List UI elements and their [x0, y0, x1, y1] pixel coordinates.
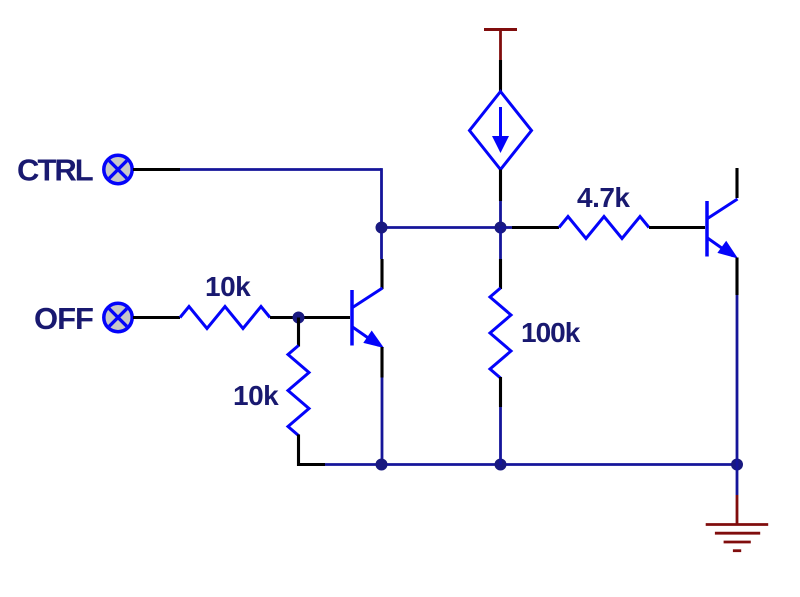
wire pin: Q2 emitter stub: [735, 258, 738, 296]
svg-text:4.7k: 4.7k: [577, 182, 630, 213]
wire pin: OFF terminal: [133, 316, 180, 319]
wire pin: Q1 collector stub: [380, 259, 383, 289]
wire pin: Q2 collector stub: [735, 168, 738, 198]
power supply V+ bar: [484, 28, 517, 60]
node C junction: [293, 312, 305, 324]
resistor R2 10k vertical: [288, 346, 309, 436]
wire: node A to node B: [382, 226, 501, 229]
wire: R1 to node C: [270, 316, 350, 319]
ground: [706, 495, 769, 551]
wire: bottom rail: [325, 463, 737, 466]
node F junction: [731, 459, 743, 471]
node B junction: [495, 222, 507, 234]
wire pin: CTRL terminal: [133, 168, 180, 171]
wire pin: current source bottom: [499, 170, 502, 202]
wire pin: node C down to R2: [297, 318, 300, 347]
wire: node B right: [501, 226, 513, 229]
resistor R4 4.7k horizontal: [559, 217, 649, 239]
wire pin: supply to current source: [499, 60, 502, 93]
node A junction: [376, 222, 388, 234]
wire pin: Q1 emitter stub: [380, 347, 383, 378]
current source I1: [470, 92, 532, 170]
transistor Q1: [352, 288, 384, 348]
terminal OFF: [104, 303, 132, 331]
node D junction: [376, 459, 388, 471]
wire: CTRL horizontal: [180, 168, 382, 171]
wire: R2 bottom to rail: [299, 435, 326, 465]
transistor Q2: [707, 199, 738, 259]
resistor R3 100k vertical: [490, 288, 511, 378]
wire pin: R3 top stub: [499, 259, 502, 289]
wire pin: R4 left stub: [512, 226, 559, 229]
wire: current source to node: [499, 201, 502, 228]
resistor R1 10k horizontal: [180, 307, 270, 329]
wire: Q2 emitter to rail: [736, 295, 739, 465]
svg-text:CTRL: CTRL: [17, 153, 93, 188]
wire: Q1 emitter to rail: [381, 378, 384, 465]
wire: R4 to Q2 base: [649, 226, 705, 229]
wire pin: R3 bottom stub: [499, 377, 502, 407]
wire: node B down: [499, 228, 502, 260]
terminal CTRL: [104, 155, 132, 183]
wire: R3 to rail: [499, 407, 502, 465]
wire: rail to ground: [736, 465, 739, 496]
svg-text:10k: 10k: [205, 271, 251, 302]
node E junction: [495, 459, 507, 471]
svg-text:OFF: OFF: [34, 301, 93, 336]
wire: CTRL down to node A: [380, 168, 383, 259]
svg-text:100k: 100k: [521, 317, 581, 348]
svg-text:10k: 10k: [233, 380, 279, 411]
